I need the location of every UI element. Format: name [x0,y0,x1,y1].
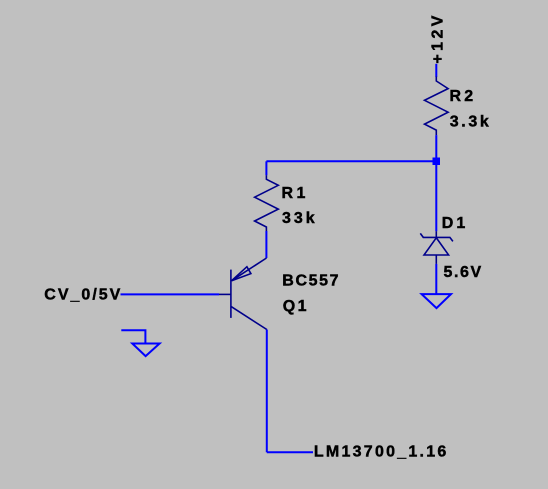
wire [266,160,436,162]
ground [121,330,159,356]
svg-text:3.3k: 3.3k [450,114,492,131]
wire [121,293,220,295]
zener diode D1 [420,231,453,264]
svg-text:R1: R1 [282,185,309,202]
svg-text:5.6V: 5.6V [444,264,483,281]
wire [435,64,437,77]
ground [422,294,451,308]
svg-text:LM13700_1.16: LM13700_1.16 [314,444,449,461]
wire [265,161,267,175]
wire [267,451,313,453]
wire [435,161,437,231]
transistor Q1 [219,258,267,330]
svg-text:R2: R2 [450,88,477,105]
svg-text:+12V: +12V [429,12,446,63]
svg-text:D1: D1 [442,215,468,232]
resistor R1 [255,175,279,231]
svg-text:33k: 33k [282,210,318,227]
wire [435,264,437,294]
svg-text:BC557: BC557 [282,272,340,289]
resistor R2 [425,77,449,136]
junction node [433,158,441,166]
wire [265,231,267,258]
svg-text:CV_0/5V: CV_0/5V [44,287,122,304]
wire [435,135,437,161]
wire [266,330,268,453]
svg-text:Q1: Q1 [283,298,309,315]
